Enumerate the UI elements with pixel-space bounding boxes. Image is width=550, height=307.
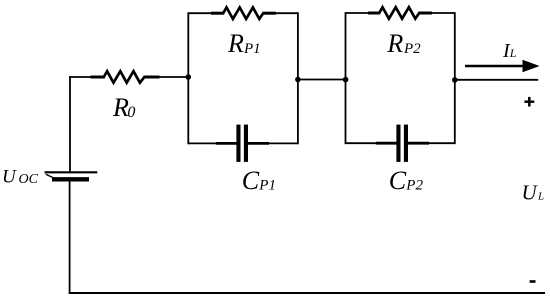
- minus terminal: [530, 280, 536, 283]
- wire: RC1 right vertical: [297, 12, 299, 144]
- svg-text:0: 0: [127, 104, 135, 121]
- label CP2: [389, 166, 424, 195]
- svg-text:U: U: [522, 180, 539, 204]
- wire: RC1 top right segment: [275, 12, 298, 14]
- node A (junction at left of RC branch 1): [186, 74, 192, 80]
- label RP1: [227, 29, 261, 58]
- label UOC: [2, 166, 39, 187]
- label IL: [502, 40, 517, 62]
- label UL: [522, 180, 545, 204]
- plus terminal: [524, 97, 534, 107]
- node D (output junction): [452, 77, 458, 83]
- wire: left vertical above battery: [69, 76, 71, 171]
- resistor RP1: [211, 7, 276, 19]
- node B (right of RC branch 1): [295, 77, 301, 83]
- wire: RC2 top right segment: [431, 12, 455, 14]
- svg-text:L: L: [537, 190, 544, 202]
- resistor RP2: [368, 7, 432, 19]
- wire: RC2 bottom right segment: [428, 142, 455, 144]
- wire: left vertical below battery: [69, 182, 71, 294]
- wire: RC2 bottom left segment: [346, 142, 378, 144]
- wire: RC1 bottom right segment: [268, 142, 298, 144]
- label CP1: [242, 166, 276, 195]
- capacitor CP2: [376, 125, 429, 162]
- wire: RC2 left vertical: [345, 12, 347, 144]
- voltage source UOC (battery): [45, 172, 98, 179]
- label R0: [112, 93, 135, 122]
- current arrow IL: [465, 60, 540, 72]
- wire: R0 to node A: [159, 76, 189, 78]
- wire: RC1 top left segment: [188, 12, 212, 14]
- wire: bottom return: [69, 292, 545, 294]
- label RP2: [386, 29, 421, 58]
- svg-text:OC: OC: [19, 172, 39, 187]
- svg-text:L: L: [509, 46, 517, 60]
- svg-text:R: R: [227, 29, 244, 58]
- wire: RC1 left vertical: [187, 12, 189, 144]
- svg-text:P1: P1: [243, 41, 261, 57]
- wire: output to load: [455, 79, 538, 81]
- resistor R0: [91, 71, 160, 83]
- svg-text:P1: P1: [258, 178, 276, 194]
- svg-text:R: R: [386, 29, 403, 58]
- capacitor CP1: [216, 125, 269, 162]
- wire: RC2 top left segment: [346, 12, 370, 14]
- svg-text:P2: P2: [405, 178, 423, 194]
- node C (left of RC branch 2): [343, 77, 349, 83]
- wire: top left from source corner to R0: [69, 76, 92, 78]
- wire: RC2 right vertical: [454, 12, 456, 144]
- wire: connector between RC branches: [298, 79, 346, 81]
- svg-text:P2: P2: [403, 41, 421, 57]
- svg-text:C: C: [389, 166, 407, 195]
- svg-text:C: C: [242, 166, 260, 195]
- svg-text:U: U: [2, 166, 17, 187]
- wire: RC1 bottom left segment: [188, 142, 217, 144]
